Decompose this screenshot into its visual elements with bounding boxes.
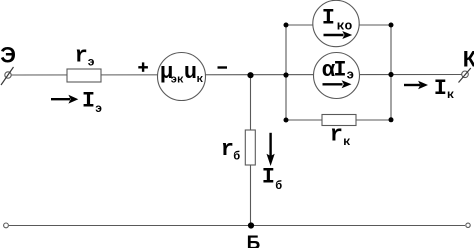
svg-text:r: r [221,137,234,162]
svg-text:б: б [233,150,240,163]
svg-text:б: б [275,180,282,193]
svg-text:I: I [262,165,275,190]
svg-text:Б: Б [247,233,261,248]
svg-text:К: К [463,46,474,71]
svg-text:к: к [343,135,350,149]
svg-text:э: э [95,102,102,116]
svg-text:r: r [330,123,343,148]
svg-text:I: I [322,6,335,31]
svg-text:I: I [333,58,346,83]
svg-text:эк: эк [171,75,185,87]
svg-text:ко: ко [337,19,353,34]
svg-text:к: к [197,74,204,86]
svg-text:I: I [434,76,447,101]
svg-text:r: r [75,44,88,69]
svg-text:I: I [82,89,95,114]
svg-text:u: u [184,60,197,85]
svg-text:э: э [88,56,95,70]
svg-text:к: к [447,88,454,102]
svg-text:э: э [346,67,354,82]
svg-text:Э: Э [0,43,16,68]
